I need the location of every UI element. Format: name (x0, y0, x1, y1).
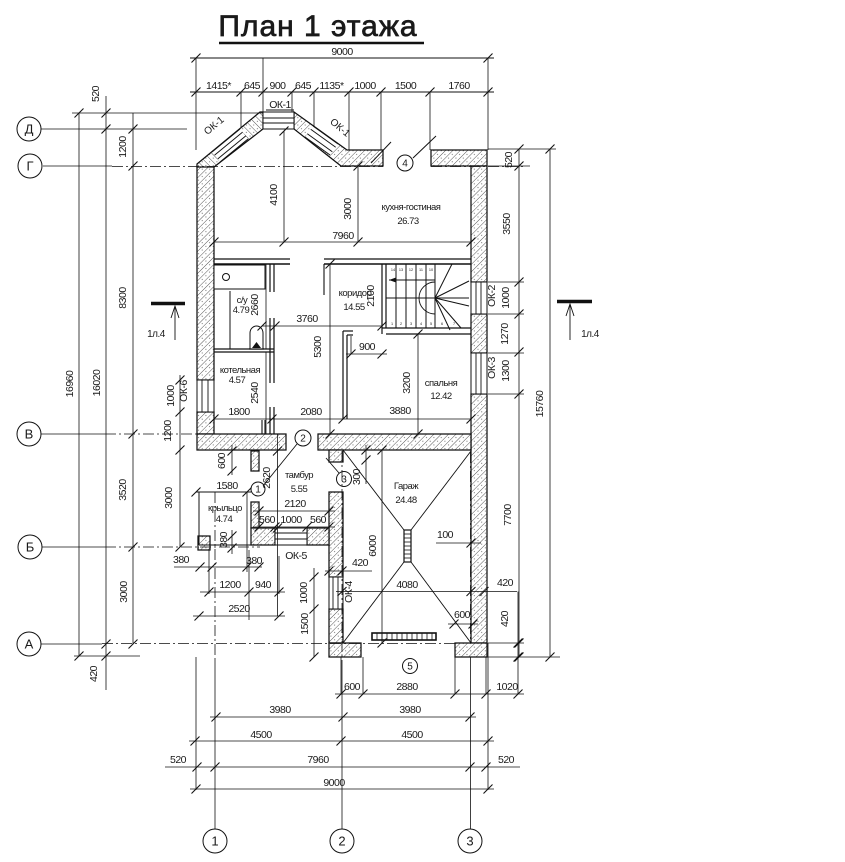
svg-text:ОК-5: ОК-5 (285, 550, 307, 562)
dim row 9000 bottom (190, 788, 494, 790)
left chain 1200/8300/3520/3000 (132, 113, 134, 644)
svg-text:2100: 2100 (365, 285, 377, 307)
svg-text:тамбур: тамбур (285, 470, 313, 481)
svg-text:2120: 2120 (284, 498, 306, 510)
dim 6000 garage (381, 450, 383, 643)
partition corridor/stairs top (324, 258, 471, 260)
bay window left diagonal wall (197, 112, 263, 167)
svg-text:13: 13 (399, 268, 403, 272)
svg-text:520: 520 (90, 85, 102, 102)
dim 900 bedroom door (346, 353, 387, 355)
axis G row (43, 165, 112, 167)
partition bath right lower (269, 407, 271, 434)
partition bedroom left (342, 331, 344, 419)
section marker 1l.4 left (151, 302, 185, 306)
svg-text:крыльцо: крыльцо (208, 503, 242, 514)
svg-text:8300: 8300 (117, 287, 129, 309)
svg-text:520: 520 (498, 754, 515, 766)
node circle 2 entry (295, 430, 311, 446)
svg-text:4100: 4100 (268, 184, 280, 206)
window OK-6 left wall (197, 380, 214, 412)
svg-text:4: 4 (420, 322, 422, 326)
svg-text:11: 11 (419, 268, 423, 272)
dim row 4500/4500 (189, 740, 494, 742)
dim 2660 bath (265, 264, 267, 349)
svg-text:5: 5 (407, 662, 413, 673)
window OK-1 flat bay (263, 112, 294, 129)
svg-text:940: 940 (255, 579, 272, 591)
svg-text:7: 7 (453, 322, 455, 326)
svg-text:1200: 1200 (117, 136, 129, 158)
garage floor grate (372, 633, 436, 640)
svg-text:560: 560 (310, 514, 327, 526)
node circle 4 top opening (397, 155, 413, 171)
garage left wall upper (329, 492, 343, 577)
svg-text:300: 300 (351, 468, 363, 485)
grid column 2 axis (341, 451, 343, 660)
svg-text:1580: 1580 (216, 480, 238, 492)
svg-text:1800: 1800 (228, 406, 250, 418)
svg-text:3980: 3980 (269, 704, 291, 716)
svg-text:3: 3 (466, 834, 473, 849)
svg-text:3880: 3880 (389, 405, 411, 417)
dim 4100 kitchen (283, 131, 285, 242)
right chain 520/3550/1000/1270/1300/7700/420 (518, 149, 520, 657)
svg-text:1л.4: 1л.4 (147, 329, 166, 340)
window OK-5 tambour south (275, 528, 307, 545)
svg-text:2080: 2080 (300, 406, 322, 418)
svg-text:4500: 4500 (401, 729, 423, 741)
svg-text:1000: 1000 (298, 582, 310, 604)
svg-text:1000: 1000 (354, 80, 376, 92)
window OK-1 right diagonal (305, 126, 338, 155)
dim 560/1000/560 OK-5 (253, 526, 335, 528)
door leaf kitchen-corridor (323, 264, 325, 295)
partition stairs bottom / bedroom top (382, 327, 471, 329)
dim row 520/7960/520 (165, 766, 520, 768)
svg-text:1500: 1500 (299, 613, 311, 635)
svg-text:3: 3 (410, 322, 412, 326)
svg-text:А: А (25, 637, 34, 652)
svg-text:900: 900 (269, 80, 286, 92)
bath inner divider (229, 291, 231, 349)
dim 2540 boiler (265, 352, 267, 434)
svg-text:14.55: 14.55 (343, 302, 364, 313)
node circle 1 porch (251, 482, 265, 496)
porch pier (198, 536, 210, 550)
svg-text:3000: 3000 (163, 487, 175, 509)
left chain 520/16020/420 (105, 96, 107, 690)
bottom extension lines (340, 657, 342, 694)
OK-5 wall band left piece (251, 528, 275, 545)
svg-text:2: 2 (300, 434, 306, 445)
bath counter with sink (214, 265, 265, 289)
left exterior wall upper (OK-6 above) (197, 166, 214, 380)
svg-text:420: 420 (499, 610, 511, 627)
left overall chain 16960 (78, 113, 80, 656)
dim 2520 (193, 615, 285, 617)
bay window right diagonal wall (294, 112, 383, 166)
node circle 5 garage door (403, 659, 418, 674)
svg-text:спальня: спальня (425, 378, 458, 389)
garage center drain strip (404, 530, 411, 562)
svg-text:3550: 3550 (501, 213, 513, 235)
svg-text:1000: 1000 (500, 287, 512, 309)
window OK-2 right wall (471, 282, 487, 314)
dimension 9000 top row (190, 57, 494, 59)
window OK-1 left diagonal (212, 129, 248, 162)
svg-text:3: 3 (341, 475, 347, 486)
svg-text:900: 900 (359, 341, 376, 353)
svg-text:14: 14 (391, 268, 395, 272)
svg-text:10: 10 (429, 268, 433, 272)
OK-5 wall band right piece (307, 528, 329, 545)
partition bath/boiler (214, 348, 274, 350)
svg-text:1л.4: 1л.4 (581, 329, 600, 340)
dim 4080/420 garage (336, 591, 517, 593)
svg-text:1270: 1270 (499, 323, 511, 345)
svg-text:1000: 1000 (165, 385, 177, 407)
svg-text:1: 1 (211, 834, 218, 849)
garage bottom wall right piece (455, 643, 487, 657)
dim 380 bottom-left (174, 566, 262, 568)
svg-text:645: 645 (295, 80, 312, 92)
dim row 600/2880/1020 (335, 693, 524, 695)
svg-text:1760: 1760 (448, 80, 470, 92)
wall band row B right segment with garage corner (318, 434, 471, 450)
svg-text:100: 100 (437, 529, 454, 541)
svg-text:3520: 3520 (117, 479, 129, 501)
svg-text:12: 12 (409, 268, 413, 272)
dim 420 garage left (325, 570, 372, 572)
partition bath right upper (269, 264, 271, 292)
partition bath top (214, 258, 290, 260)
dim 5300 corridor (329, 264, 331, 434)
porch dim extension lines (246, 492, 248, 572)
window OK-3 right wall (471, 353, 487, 394)
wall band row B left segment (197, 434, 286, 450)
axis B row (42, 546, 105, 548)
svg-text:645: 645 (244, 80, 261, 92)
dim 1000/1500 OK-4 (313, 568, 315, 657)
svg-text:2540: 2540 (249, 382, 261, 404)
svg-text:560: 560 (259, 514, 276, 526)
svg-text:2: 2 (400, 322, 402, 326)
left exterior wall lower (197, 412, 214, 434)
dim 100 garage (436, 542, 481, 544)
right exterior wall mid1 (471, 314, 487, 353)
grid column 3 axis (470, 452, 472, 643)
svg-text:600: 600 (454, 609, 471, 621)
svg-text:ОК-1: ОК-1 (269, 99, 291, 111)
dim 3000 kitchen (357, 166, 359, 242)
svg-text:26.73: 26.73 (397, 216, 418, 227)
section marker 1l.4 right (557, 300, 592, 304)
left inner chain 1000/1200/3000 (179, 375, 181, 547)
svg-text:6: 6 (441, 322, 443, 326)
svg-text:План 1 этажа: План 1 этажа (218, 10, 417, 43)
node circle 3 tambour-garage (337, 472, 352, 487)
svg-text:1200: 1200 (219, 579, 241, 591)
svg-text:12.42: 12.42 (430, 391, 451, 402)
top wall right segment (431, 150, 487, 166)
partition stairs left (381, 264, 383, 334)
svg-text:3000: 3000 (342, 198, 354, 220)
svg-text:520: 520 (503, 151, 515, 168)
right overall 15760 (549, 149, 551, 657)
svg-text:7960: 7960 (307, 754, 329, 766)
garage diagonal braces (343, 450, 404, 530)
svg-text:2: 2 (338, 834, 345, 849)
garage bottom wall left piece (329, 643, 361, 657)
tambour left wall lower (251, 502, 259, 528)
dim row 1800/2080/3880 (214, 418, 471, 420)
svg-text:420: 420 (88, 665, 100, 682)
svg-text:2520: 2520 (228, 603, 250, 615)
svg-text:420: 420 (497, 577, 514, 589)
svg-text:1200: 1200 (162, 420, 174, 442)
toilet (250, 326, 263, 349)
axis A row (41, 643, 102, 645)
svg-text:Г: Г (26, 159, 33, 174)
svg-text:4.79: 4.79 (233, 305, 250, 316)
dimension chain row 1415*/645/900/645/1135*/1000/1500/1760 (190, 91, 494, 93)
svg-text:2880: 2880 (396, 681, 418, 693)
svg-text:ОК-2: ОК-2 (486, 285, 498, 307)
svg-text:5.55: 5.55 (291, 484, 308, 495)
svg-text:1415*: 1415* (206, 80, 231, 92)
svg-text:3760: 3760 (296, 313, 318, 325)
svg-text:4.57: 4.57 (229, 375, 246, 386)
tambour left wall pier 600 (251, 451, 259, 471)
svg-text:9000: 9000 (323, 777, 345, 789)
svg-text:420: 420 (352, 557, 369, 569)
dim 2120 tambour width (253, 510, 335, 512)
svg-text:7700: 7700 (502, 504, 514, 526)
right exterior wall mid2 (471, 394, 487, 643)
svg-text:15760: 15760 (534, 390, 546, 417)
garage left wall lower (329, 609, 343, 643)
svg-text:Б: Б (26, 540, 35, 555)
svg-text:В: В (25, 427, 34, 442)
svg-text:380: 380 (246, 555, 263, 567)
svg-text:5300: 5300 (312, 336, 324, 358)
door frame corridor-tambour (261, 420, 263, 434)
dim 420 bottom right v (517, 592, 519, 658)
svg-text:4: 4 (402, 159, 408, 170)
dim 1580 porch top (192, 488, 201, 497)
svg-text:9000: 9000 (331, 46, 353, 58)
dim row 3980/3980 (210, 716, 476, 718)
svg-text:600: 600 (344, 681, 361, 693)
svg-text:3980: 3980 (399, 704, 421, 716)
svg-text:2620: 2620 (261, 467, 273, 489)
svg-text:1020: 1020 (496, 681, 518, 693)
axis D row (41, 128, 187, 130)
svg-text:380: 380 (173, 554, 190, 566)
svg-text:16960: 16960 (64, 370, 76, 397)
staircase with winders (386, 297, 435, 299)
svg-text:1000: 1000 (280, 514, 302, 526)
svg-text:2660: 2660 (249, 294, 261, 316)
dim 3760 corridor (262, 325, 382, 327)
svg-text:600: 600 (216, 452, 228, 469)
dim 2620 tambour (277, 434, 279, 616)
svg-text:3200: 3200 (401, 372, 413, 394)
partition bath right mid (269, 318, 271, 383)
svg-text:1500: 1500 (395, 80, 417, 92)
svg-text:Д: Д (25, 122, 34, 137)
svg-text:4500: 4500 (250, 729, 272, 741)
top extension lines (195, 58, 197, 150)
svg-text:3000: 3000 (118, 581, 130, 603)
svg-text:1135*: 1135* (319, 80, 344, 92)
grid column 1 axis (214, 492, 216, 660)
dim 7960 kitchen (214, 241, 471, 243)
svg-text:кухня-гостиная: кухня-гостиная (382, 202, 441, 213)
svg-text:1: 1 (391, 322, 393, 326)
dim 600 pier (231, 445, 233, 475)
right exterior wall upper (471, 166, 487, 282)
svg-text:4.74: 4.74 (216, 514, 233, 525)
svg-text:6000: 6000 (367, 535, 379, 557)
svg-text:7960: 7960 (332, 230, 354, 242)
svg-text:5: 5 (430, 322, 432, 326)
window OK-4 garage left wall (329, 577, 343, 609)
dim 3200 bedroom (417, 334, 419, 434)
svg-text:520: 520 (170, 754, 187, 766)
axis V row (41, 433, 105, 435)
svg-text:24.48: 24.48 (395, 495, 416, 506)
porch outline (196, 491, 251, 493)
svg-text:1300: 1300 (500, 360, 512, 382)
svg-text:Гараж: Гараж (394, 481, 419, 492)
dim 600 garage door right (448, 623, 478, 625)
svg-text:16020: 16020 (91, 369, 103, 396)
dim 1200/940 (200, 591, 285, 593)
svg-text:4080: 4080 (396, 579, 418, 591)
svg-text:ОК-3: ОК-3 (486, 357, 498, 379)
